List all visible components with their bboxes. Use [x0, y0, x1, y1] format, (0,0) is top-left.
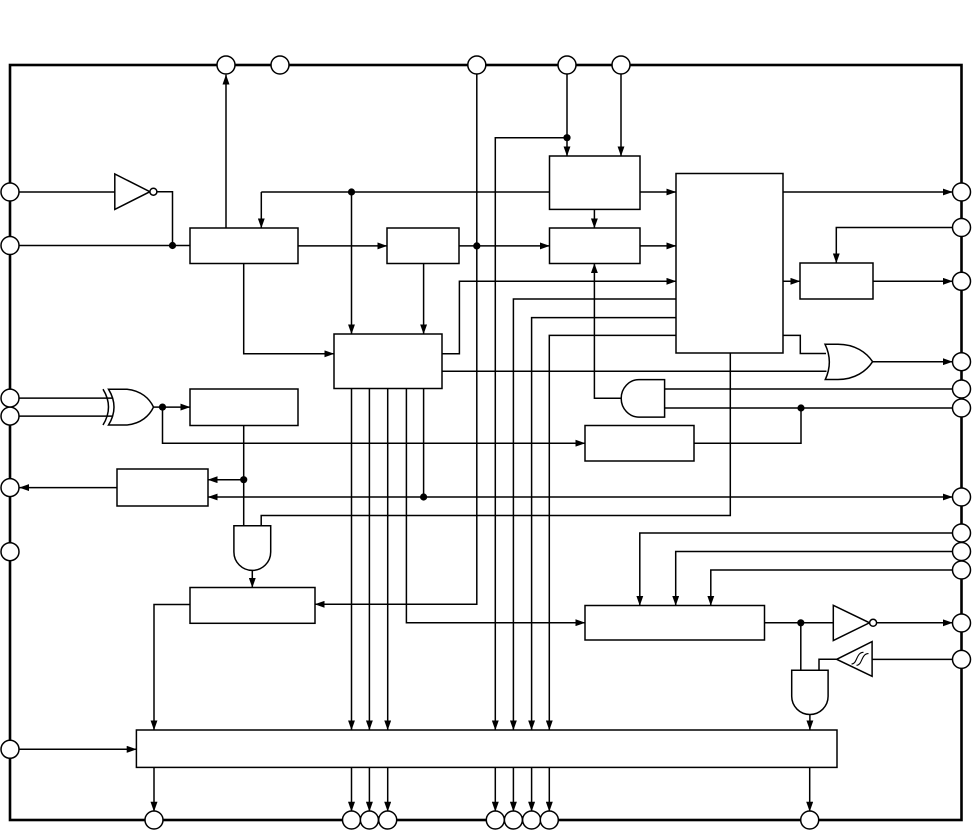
pin R11	[953, 614, 971, 632]
pin L7	[1, 740, 19, 758]
wire: block B1 top to top pin T1	[225, 75, 227, 228]
wire: block B4 left pin y317 down to bus top	[532, 318, 676, 730]
wire: AND U4 output into block B6 top	[251, 570, 253, 587]
junction on block BA output net	[473, 242, 480, 249]
block B6	[190, 588, 315, 624]
wire: pin R8 left then down into block B7 top	[640, 533, 953, 606]
pin R3	[953, 272, 971, 290]
wire: bus bottom to bottom pin B2	[351, 767, 353, 811]
pin T1	[217, 56, 235, 74]
AND gate U7	[792, 670, 828, 714]
wire: block BA bottom down into block B3 top	[423, 264, 425, 335]
wire: pin L7 to bus left	[19, 748, 136, 750]
wire: top pin T3 down then left into block B6 right	[315, 75, 477, 605]
wire: net Y497 left into block B9 right	[208, 496, 424, 498]
wire: pin R9 left then down into block B7 top	[676, 552, 953, 606]
wire: block B4 bottom down left down into AND U4 top input B	[261, 353, 730, 526]
wire: inverter U6 output to pin R11	[876, 622, 952, 624]
pin T4	[558, 56, 576, 74]
wire: block B3 bottom bit1 down to bus top	[368, 389, 370, 731]
wire: net Y192 branch down into block B3 top	[351, 192, 353, 334]
pin B8	[540, 811, 558, 829]
wire: block B3 bottom down then right into block B7 left	[406, 389, 585, 623]
block B1	[190, 228, 298, 264]
wire: bus bottom to bottom pin B5	[494, 767, 496, 811]
wire: pin L4 to XOR U3 input B	[10, 415, 112, 417]
pin T5	[612, 56, 630, 74]
wire: AND U2 output left then up into block B5 bottom	[594, 264, 621, 399]
pin R2	[953, 219, 971, 237]
wire: bus bottom to bottom pin B4	[387, 767, 389, 811]
schmitt buffer U8 (left pointing)	[837, 642, 872, 677]
junction on block B7 output net	[797, 619, 804, 626]
pin B7	[523, 811, 541, 829]
wire: block B4 right to pin R1	[783, 191, 953, 193]
AND gate U2 (left pointing)	[621, 380, 664, 418]
wire: pin L3 to XOR U3 input A	[10, 397, 112, 399]
wire: OR gate U5 output to pin R4	[873, 361, 953, 363]
wire: block BA right to block B5 left	[459, 245, 550, 247]
wire: block B7 right to inverter U6 input	[765, 622, 834, 624]
wire: block B3 right up then right into block B4 left	[442, 281, 676, 354]
wire: block B5 right to block B4 left	[640, 245, 676, 247]
pin R1	[953, 183, 971, 201]
wire: block B1 right to block BA left	[298, 245, 387, 247]
block B3	[334, 334, 442, 389]
wire: block B3 bottom bit0 down to bus top	[351, 389, 353, 731]
wire: net Y497 right to pin R7	[424, 496, 953, 498]
wire: block B2 bottom into block B5 top	[593, 209, 595, 228]
wire: bus bottom to bottom pin B8	[548, 767, 550, 811]
pin R12	[953, 650, 971, 668]
wire: block B9 left to pin L5	[20, 487, 118, 489]
wire: pin R10 left then down into block B7 top	[711, 570, 953, 606]
pin B1	[145, 811, 163, 829]
junction on net Y497	[420, 493, 427, 500]
junction at inverter U1 output and pin L2 net	[169, 242, 176, 249]
wire: top pin T5 down into block B2 top	[620, 75, 622, 157]
pin L5	[1, 479, 19, 497]
wire: block BB bottom down to AND U4 top input A	[243, 426, 245, 526]
junction on block BB output net	[240, 476, 247, 483]
junction at XOR U3 output	[159, 404, 166, 411]
junction on pin R6 net	[797, 404, 804, 411]
pin B6	[504, 811, 522, 829]
wire: node y622 down to AND U7 top input A	[800, 623, 802, 670]
wire: node at (567,137.7) left then down long to bus top	[495, 138, 567, 730]
wire: bus bottom to bottom pin B7	[531, 767, 533, 811]
wire: net Y192 down into block B1 top	[260, 192, 262, 228]
wire: block B3 right y371 to OR gate U5 input B	[442, 370, 827, 372]
wire: schmitt buffer U8 output left then down to AND U7 top input B	[819, 659, 837, 670]
wire: node XOR out to block BB left	[163, 406, 191, 408]
junction on top pin T4 net	[563, 134, 570, 141]
wire: pin R5 to AND U2 input A	[665, 388, 953, 390]
pin R7	[953, 488, 971, 506]
wire: block B3 bottom bit2 down to bus top	[387, 389, 389, 731]
AND gate U4	[234, 526, 271, 571]
wire: bus bottom to bottom pin B3	[368, 767, 370, 811]
pin B5	[486, 811, 504, 829]
block B4	[676, 174, 783, 354]
wire: pin L2 to block B1 left	[10, 245, 190, 247]
wire: net Y192 horizontal from corner to block B2 left	[261, 191, 549, 193]
block B9	[117, 469, 208, 506]
wire: pin L1 to inverter U1 input	[10, 191, 115, 193]
block B5	[550, 228, 641, 264]
junction on net Y192	[348, 188, 355, 195]
wire: bus bottom to bottom pin B6	[512, 767, 514, 811]
wire: block B3 bottom output down to node y497	[423, 389, 425, 498]
inverter U6	[833, 605, 876, 640]
block B2	[550, 156, 641, 209]
wire: inverter U1 output down to node at y245	[157, 192, 173, 246]
wire: XOR U3 output stub	[154, 406, 163, 408]
wire: top pin T4 down into block B2 top	[566, 75, 568, 157]
pin T2	[271, 56, 289, 74]
pin R4	[953, 353, 971, 371]
pin B9	[801, 811, 819, 829]
pin B2	[343, 811, 361, 829]
wire: block B4 left pin y335 down to bus top	[549, 335, 676, 730]
inverter U1	[115, 174, 157, 209]
pin L3	[1, 389, 19, 407]
block B7	[585, 606, 765, 641]
XOR gate U3	[103, 389, 154, 425]
wire: block B4 right to block BR left	[783, 280, 800, 282]
pin R6	[953, 399, 971, 417]
wire: pin R2 left then down into block BR top	[836, 228, 952, 264]
pin B4	[379, 811, 397, 829]
pin B3	[360, 811, 378, 829]
pin R5	[953, 380, 971, 398]
wire: block B8 right up to node y408	[694, 408, 801, 443]
wire: block BR right to pin R3	[873, 280, 953, 282]
wire: bus bottom to bottom pin B9	[809, 767, 811, 811]
wire: pin R6 to AND U2 input B	[665, 407, 953, 409]
pin L4	[1, 407, 19, 425]
pin L6	[1, 543, 19, 561]
wire: block B4 left pin y299 down to bus top	[513, 299, 676, 730]
pin R9	[953, 543, 971, 561]
OR gate U5	[825, 344, 873, 379]
wire: AND U7 output down into bus top	[809, 713, 811, 730]
block BA	[387, 228, 459, 264]
block BB	[190, 389, 298, 426]
bus buffer block BUS	[136, 730, 837, 767]
block BR	[800, 263, 873, 299]
wire: node XOR out down then right into block B8 left	[163, 407, 586, 443]
wire: block B4 right y335 jog down to OR gate U5 input A	[783, 335, 826, 353]
pin T3	[468, 56, 486, 74]
pin R10	[953, 561, 971, 579]
wire: block B2 right to block B4 left	[640, 191, 676, 193]
pin L2	[1, 237, 19, 255]
block B8	[585, 426, 694, 462]
wire: node y479 left into block B9 right	[208, 479, 244, 481]
pin R8	[953, 524, 971, 542]
wire: block B1 bottom down then right into block B3 left	[244, 264, 334, 354]
pin L1	[1, 183, 19, 201]
wire: bus bottom to bottom pin B1	[153, 767, 155, 811]
wire: pin R12 to schmitt buffer U8 input	[872, 658, 952, 660]
wire: block B6 left then down to bus top	[154, 605, 190, 731]
